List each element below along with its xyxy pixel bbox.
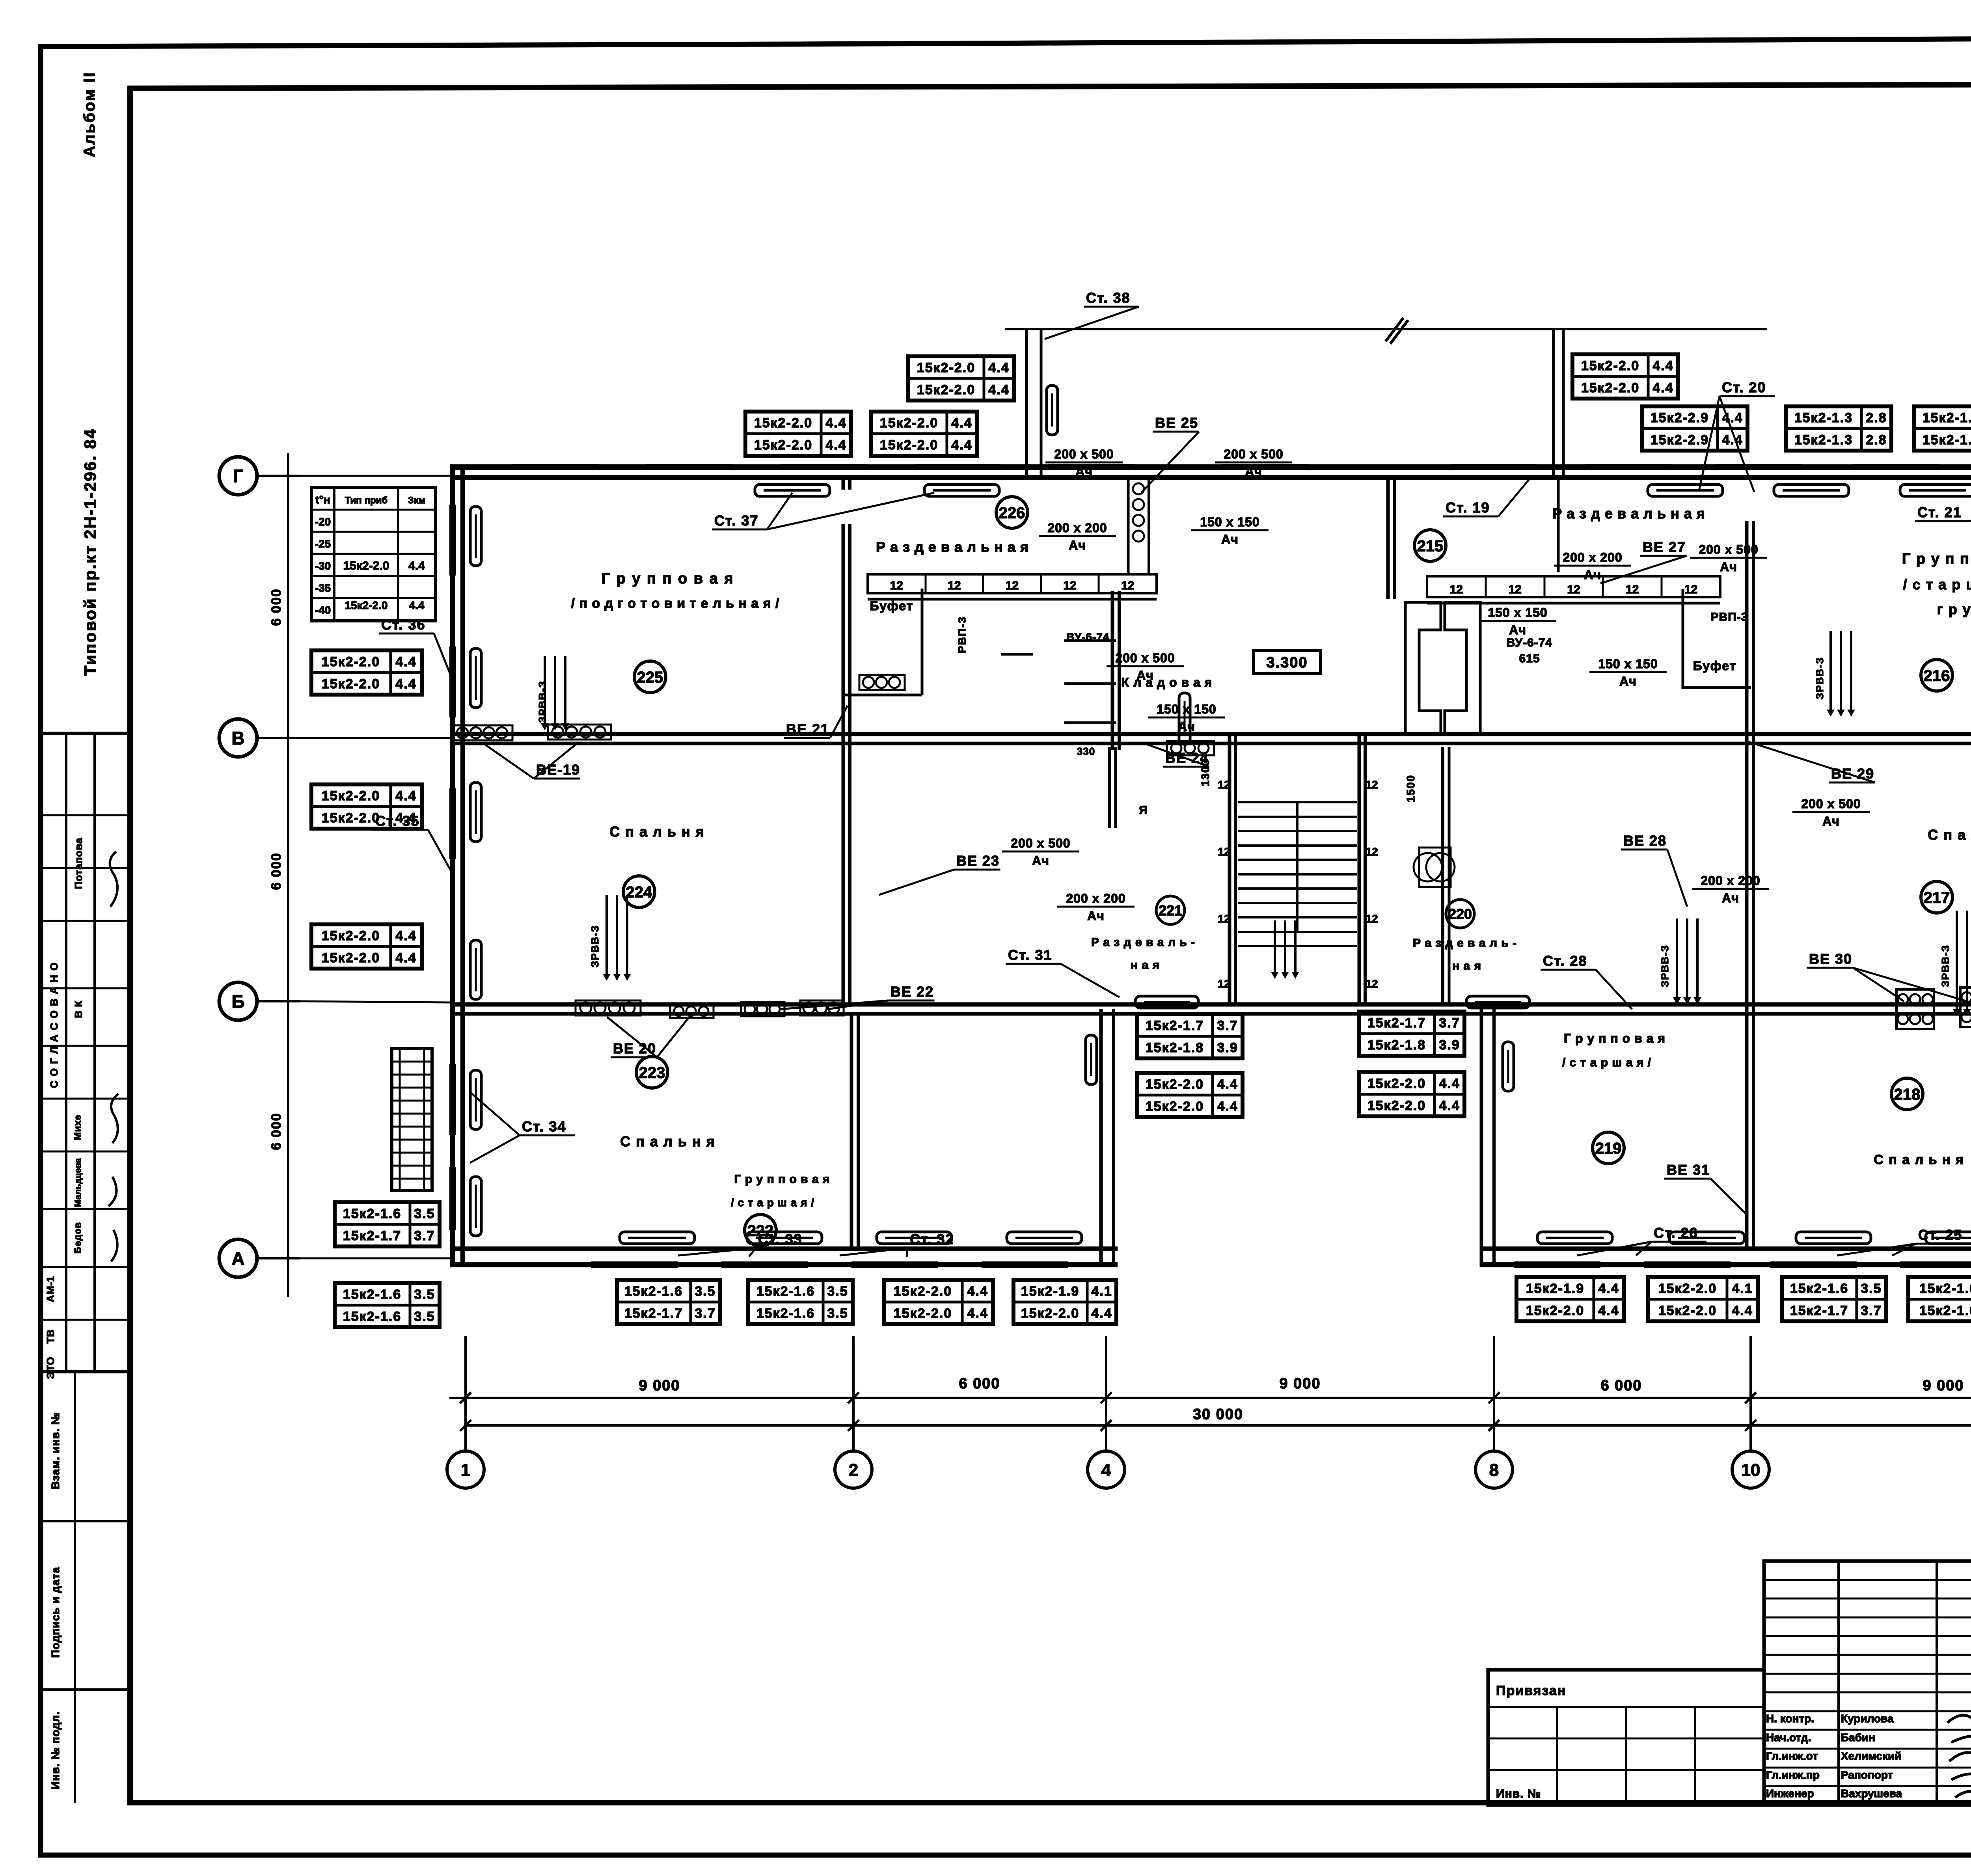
svg-text:Ст. 21: Ст. 21 (1917, 504, 1962, 520)
svg-text:15к2-2.0: 15к2-2.0 (1658, 1281, 1717, 1296)
svg-text:Ст. 20: Ст. 20 (1722, 379, 1766, 395)
svg-text:15к2-2.0: 15к2-2.0 (880, 438, 938, 453)
svg-text:В: В (231, 728, 244, 749)
svg-text:150 x 150: 150 x 150 (1157, 702, 1216, 716)
svg-text:15к2-1.6: 15к2-1.6 (1919, 1303, 1971, 1318)
svg-text:Бедов: Бедов (73, 1222, 83, 1254)
svg-text:А: А (231, 1248, 244, 1269)
svg-text:15к2-2.0: 15к2-2.0 (322, 928, 380, 943)
svg-text:3.5: 3.5 (414, 1287, 435, 1302)
svg-text:12: 12 (1684, 583, 1697, 596)
svg-text:t°н: t°н (315, 494, 330, 506)
svg-text:Курилова: Курилова (1841, 1712, 1894, 1725)
svg-text:15к2-1.7: 15к2-1.7 (343, 1228, 401, 1243)
svg-text:15к2-2.0: 15к2-2.0 (1146, 1077, 1204, 1092)
svg-text:Я: Я (1139, 804, 1148, 817)
svg-text:15к2-2.0: 15к2-2.0 (345, 599, 388, 611)
svg-text:15к2-1.9: 15к2-1.9 (1021, 1284, 1079, 1299)
svg-text:224: 224 (626, 883, 652, 901)
svg-text:15к2-1.6: 15к2-1.6 (343, 1287, 401, 1302)
left strip: lower cells (41, 1371, 130, 1373)
svg-text:15к2-2.0: 15к2-2.0 (322, 810, 380, 825)
svg-text:3.5: 3.5 (827, 1284, 848, 1299)
svg-text:Г р у п п о в а я: Г р у п п о в а я (734, 1173, 830, 1186)
svg-text:Ст. 37: Ст. 37 (714, 512, 759, 529)
svg-text:4.4: 4.4 (409, 599, 425, 611)
svg-text:ЗРВВ-З: ЗРВВ-З (537, 680, 548, 723)
svg-text:Н. контр.: Н. контр. (1766, 1712, 1814, 1725)
svg-text:15к2-1.6: 15к2-1.6 (343, 1309, 401, 1324)
svg-text:К л а д о в а я: К л а д о в а я (1121, 675, 1213, 689)
svg-text:Инв. № подл.: Инв. № подл. (49, 1711, 61, 1789)
svg-text:Инв. №: Инв. № (1496, 1787, 1541, 1800)
svg-text:15к2-2.0: 15к2-2.0 (1526, 1303, 1584, 1318)
svg-text:2.8: 2.8 (1866, 410, 1887, 425)
svg-text:Потапова: Потапова (73, 838, 84, 889)
svg-text:4.4: 4.4 (951, 415, 972, 430)
svg-text:3.9: 3.9 (1439, 1038, 1460, 1053)
svg-text:4.4: 4.4 (967, 1284, 988, 1299)
svg-text:Ач: Ач (1136, 668, 1154, 682)
svg-text:4.4: 4.4 (395, 788, 416, 803)
svg-text:15к2-1.6: 15к2-1.6 (756, 1284, 815, 1299)
svg-text:223: 223 (639, 1064, 665, 1081)
svg-text:12: 12 (1121, 579, 1134, 592)
svg-text:3.7: 3.7 (414, 1228, 435, 1243)
svg-text:12: 12 (1218, 978, 1230, 990)
svg-text:12: 12 (1218, 779, 1230, 791)
svg-text:4.4: 4.4 (395, 654, 416, 669)
value tables around plan (908, 356, 1014, 401)
svg-text:200 x 200: 200 x 200 (1047, 521, 1107, 535)
svg-text:ВЕ 30: ВЕ 30 (1809, 951, 1852, 967)
svg-text:1500: 1500 (1405, 775, 1417, 802)
svg-text:15к2-1.3: 15к2-1.3 (1923, 410, 1971, 425)
svg-text:4.4: 4.4 (1439, 1098, 1460, 1113)
svg-text:ВЕ 25: ВЕ 25 (1155, 415, 1198, 431)
cubby rows (868, 574, 1157, 593)
svg-text:15к2-1.8: 15к2-1.8 (1146, 1040, 1204, 1055)
svg-text:Ач: Ач (1087, 909, 1105, 923)
svg-text:15к2-2.9: 15к2-2.9 (1651, 410, 1709, 425)
svg-text:Привязан: Привязан (1496, 1683, 1566, 1698)
svg-text:6 000: 6 000 (959, 1375, 1000, 1392)
svg-text:15к2-2.0: 15к2-2.0 (343, 559, 389, 572)
svg-text:4.4: 4.4 (967, 1306, 988, 1321)
svg-text:12: 12 (890, 579, 903, 592)
svg-text:-20: -20 (315, 516, 331, 528)
svg-text:1: 1 (461, 1461, 470, 1480)
svg-text:Ач: Ач (1619, 674, 1637, 688)
svg-text:Подпись и дата: Подпись и дата (49, 1567, 61, 1658)
svg-text:ВЕ 21: ВЕ 21 (786, 721, 829, 737)
svg-text:3.5: 3.5 (414, 1206, 435, 1221)
svg-text:Рапопорт: Рапопорт (1841, 1769, 1893, 1781)
svg-text:200 x 200: 200 x 200 (1066, 891, 1125, 905)
svg-text:Ст. 38: Ст. 38 (1086, 290, 1131, 306)
svg-text:2.8: 2.8 (1866, 432, 1887, 447)
svg-text:15к2-1.7: 15к2-1.7 (1790, 1303, 1848, 1318)
svg-text:Ст. 32: Ст. 32 (910, 1231, 954, 1247)
svg-text:226: 226 (999, 504, 1025, 522)
svg-text:200 x 500: 200 x 500 (1224, 447, 1283, 461)
svg-text:Ст. 19: Ст. 19 (1446, 499, 1490, 516)
svg-text:15к2-2.0: 15к2-2.0 (1021, 1306, 1079, 1321)
svg-text:4.1: 4.1 (1091, 1284, 1112, 1299)
svg-text:200 x 500: 200 x 500 (1011, 836, 1070, 850)
svg-text:15к2-1.6: 15к2-1.6 (1919, 1281, 1971, 1296)
svg-text:Р а з д е в а л ь -: Р а з д е в а л ь - (1091, 936, 1195, 949)
svg-text:Ст. 33: Ст. 33 (758, 1231, 803, 1247)
svg-text:Ст. 34: Ст. 34 (522, 1118, 566, 1135)
svg-text:30 000: 30 000 (1193, 1406, 1243, 1423)
svg-text:3.5: 3.5 (827, 1306, 848, 1321)
svg-text:15к2-2.0: 15к2-2.0 (322, 654, 380, 669)
svg-text:Ач: Ач (1720, 560, 1737, 574)
svg-text:Вахрушева: Вахрушева (1841, 1787, 1902, 1800)
svg-text:Р а з д е в а л ь н а я: Р а з д е в а л ь н а я (1552, 505, 1705, 522)
svg-text:Ач: Ач (1178, 719, 1195, 734)
svg-text:ЗРВВ-З: ЗРВВ-З (589, 925, 601, 967)
svg-text:С п а л ь н я: С п а л ь н я (609, 823, 705, 840)
svg-text:ТВ: ТВ (45, 1329, 56, 1344)
svg-text:215: 215 (1417, 537, 1444, 555)
svg-text:220: 220 (1448, 906, 1472, 922)
svg-text:ВУ-6-74: ВУ-6-74 (1067, 631, 1110, 643)
svg-text:330: 330 (1077, 745, 1095, 757)
svg-text:Взам. инв. №: Взам. инв. № (49, 1412, 61, 1489)
svg-text:С п а л ь н я: С п а л ь н я (620, 1133, 715, 1149)
svg-text:4.4: 4.4 (395, 810, 416, 825)
svg-text:Буфет: Буфет (870, 599, 914, 613)
svg-text:12: 12 (948, 579, 961, 592)
svg-text:4.4: 4.4 (395, 950, 416, 965)
svg-text:Типовой пр.кт 2Н-1-296. 84: Типовой пр.кт 2Н-1-296. 84 (81, 428, 99, 676)
svg-text:12: 12 (1509, 583, 1522, 596)
svg-text:15к2-1.6: 15к2-1.6 (624, 1284, 683, 1299)
svg-text:Г: Г (233, 466, 243, 486)
svg-text:4.4: 4.4 (951, 438, 972, 453)
svg-text:ВЕ 23: ВЕ 23 (956, 853, 1000, 869)
svg-text:12: 12 (1218, 846, 1230, 858)
svg-text:4: 4 (1101, 1461, 1111, 1480)
svg-text:6 000: 6 000 (1600, 1377, 1642, 1394)
svg-text:12: 12 (1366, 846, 1378, 858)
axis letters (219, 457, 257, 495)
svg-text:150 x 150: 150 x 150 (1200, 515, 1259, 529)
svg-text:Ст. 31: Ст. 31 (1008, 947, 1053, 963)
svg-text:/ п о д г о т о в и т е л ь н: / п о д г о т о в и т е л ь н а я / (571, 596, 780, 611)
svg-text:Ст. 26: Ст. 26 (1654, 1225, 1698, 1241)
svg-text:12: 12 (1450, 583, 1463, 596)
svg-text:200 x 200: 200 x 200 (1701, 874, 1760, 888)
svg-text:4.4: 4.4 (1217, 1099, 1238, 1114)
svg-text:ВЕ 31: ВЕ 31 (1667, 1162, 1710, 1178)
svg-text:15к2-2.9: 15к2-2.9 (1651, 432, 1709, 447)
svg-text:15к2-2.0: 15к2-2.0 (1367, 1098, 1426, 1113)
svg-text:6 000: 6 000 (269, 1112, 284, 1150)
svg-text:4.4: 4.4 (1732, 1303, 1753, 1318)
svg-text:Инженер: Инженер (1766, 1787, 1814, 1800)
svg-text:В К: В К (73, 1000, 84, 1018)
svg-text:Г р у п п о в а я: Г р у п п о в а я (1902, 551, 1971, 567)
svg-text:Р а з д е в а л ь н а я: Р а з д е в а л ь н а я (876, 539, 1029, 555)
svg-text:ВЕ-19: ВЕ-19 (536, 762, 580, 778)
svg-text:Р а з д е в а л ь -: Р а з д е в а л ь - (1413, 937, 1517, 950)
svg-text:6 000: 6 000 (269, 852, 284, 890)
svg-text:4.4: 4.4 (988, 382, 1009, 397)
svg-text:4.4: 4.4 (1652, 380, 1673, 395)
svg-text:Ст. 25: Ст. 25 (1918, 1227, 1963, 1243)
svg-text:15к2-1.7: 15к2-1.7 (624, 1306, 683, 1321)
svg-text:15к2-2.0: 15к2-2.0 (917, 360, 975, 375)
svg-text:4.4: 4.4 (988, 360, 1009, 375)
svg-text:4.4: 4.4 (395, 676, 416, 691)
svg-text:-35: -35 (315, 582, 331, 594)
svg-text:н а я: н а я (1452, 959, 1481, 972)
svg-text:/ с т а р ш а я /: / с т а р ш а я / (731, 1196, 814, 1209)
svg-text:3.5: 3.5 (1861, 1281, 1882, 1296)
svg-text:3.5: 3.5 (695, 1284, 715, 1299)
svg-text:15к2-1.7: 15к2-1.7 (1367, 1015, 1426, 1030)
left exterior stair (392, 1049, 432, 1190)
svg-text:Ач: Ач (1245, 464, 1262, 479)
svg-text:200 x 500: 200 x 500 (1699, 542, 1758, 557)
svg-text:15к2-2.0: 15к2-2.0 (1367, 1076, 1426, 1091)
svg-text:12: 12 (1366, 779, 1378, 791)
svg-text:3.7: 3.7 (1861, 1303, 1882, 1318)
svg-text:3.7: 3.7 (1217, 1018, 1238, 1033)
svg-text:Хелимский: Хелимский (1841, 1750, 1902, 1762)
svg-text:Ач: Ач (1069, 538, 1086, 552)
svg-text:200 x 500: 200 x 500 (1801, 797, 1861, 811)
svg-text:4.4: 4.4 (395, 928, 416, 943)
svg-text:4.4: 4.4 (1598, 1281, 1619, 1296)
svg-text:9 000: 9 000 (1923, 1377, 1964, 1394)
svg-text:15к2-1.6: 15к2-1.6 (343, 1206, 401, 1221)
svg-text:3.5: 3.5 (414, 1309, 435, 1324)
svg-text:С п а л ь н я: С п а л ь н я (1928, 827, 1971, 843)
svg-text:15к2-2.0: 15к2-2.0 (754, 438, 812, 453)
svg-text:12: 12 (1366, 913, 1378, 925)
svg-text:4.4: 4.4 (1217, 1077, 1238, 1092)
bottom dimension lines (449, 1397, 1971, 1399)
svg-text:С п а л ь н я: С п а л ь н я (1874, 1152, 1964, 1167)
svg-text:Буфет: Буфет (1693, 659, 1737, 673)
svg-text:15к2-1.6: 15к2-1.6 (1790, 1281, 1848, 1296)
svg-text:15к2-1.6: 15к2-1.6 (756, 1306, 815, 1321)
svg-text:Мальдцева: Мальдцева (73, 1158, 83, 1207)
svg-text:Ач: Ач (1032, 853, 1049, 868)
svg-text:9 000: 9 000 (639, 1377, 680, 1394)
svg-text:Бабин: Бабин (1841, 1731, 1875, 1744)
svg-text:1300: 1300 (1199, 759, 1211, 786)
svg-text:Ач: Ач (1075, 464, 1093, 479)
svg-text:15к2-2.0: 15к2-2.0 (1581, 358, 1639, 373)
svg-text:12: 12 (1567, 583, 1580, 596)
down arrow groups (541, 656, 569, 730)
svg-text:9 000: 9 000 (1279, 1375, 1321, 1392)
svg-text:Тип приб: Тип приб (345, 495, 387, 506)
svg-text:15к2-2.0: 15к2-2.0 (894, 1306, 952, 1321)
svg-text:С О Г Л А С О В А Н О: С О Г Л А С О В А Н О (48, 962, 60, 1088)
radiators left/right walls (470, 507, 481, 566)
svg-text:216: 216 (1924, 667, 1950, 684)
vent stacks small (1127, 475, 1130, 574)
svg-text:Ст. 28: Ст. 28 (1543, 953, 1587, 969)
svg-text:15к2-2.0: 15к2-2.0 (880, 415, 938, 430)
svg-text:200 x 500: 200 x 500 (1054, 447, 1114, 461)
svg-text:3.7: 3.7 (695, 1306, 715, 1321)
svg-text:15к2-1.9: 15к2-1.9 (1526, 1281, 1584, 1296)
svg-text:218: 218 (1894, 1086, 1921, 1103)
radiators bottom (620, 1232, 695, 1244)
svg-text:15к2-2.0: 15к2-2.0 (1658, 1303, 1717, 1318)
svg-text:12: 12 (1006, 579, 1019, 592)
svg-text:15к2-1.3: 15к2-1.3 (1923, 432, 1971, 447)
svg-text:4.4: 4.4 (1598, 1303, 1619, 1318)
central staircase (1228, 735, 1231, 1004)
vents on B wall (453, 725, 512, 740)
svg-text:221: 221 (1159, 902, 1182, 918)
svg-text:200 x 500: 200 x 500 (1115, 651, 1175, 665)
svg-text:-40: -40 (315, 604, 331, 616)
svg-text:15к2-2.0: 15к2-2.0 (322, 950, 380, 965)
svg-text:ВЕ 20: ВЕ 20 (613, 1040, 656, 1056)
svg-text:Зкм: Зкм (408, 495, 426, 506)
canopy (1005, 328, 1767, 330)
svg-text:4.4: 4.4 (1722, 432, 1743, 447)
exterior walls (450, 464, 1971, 470)
interior walls (450, 732, 1971, 736)
svg-text:Г р у п п о в а я: Г р у п п о в а я (1564, 1031, 1665, 1045)
svg-text:15к2-2.0: 15к2-2.0 (894, 1284, 952, 1299)
svg-text:4.1: 4.1 (1732, 1281, 1753, 1296)
svg-text:3.7: 3.7 (1439, 1015, 1460, 1030)
svg-text:8: 8 (1489, 1461, 1499, 1480)
svg-text:ВЕ 22: ВЕ 22 (890, 984, 934, 1000)
svg-text:12: 12 (1626, 583, 1639, 596)
svg-text:Альбом II: Альбом II (81, 71, 98, 157)
svg-text:615: 615 (1519, 652, 1540, 665)
svg-text:12: 12 (1366, 978, 1378, 990)
svg-text:/ с т а р ш а я: / с т а р ш а я (1903, 576, 1971, 592)
title block (1764, 1561, 1971, 1805)
axis lines to plan (300, 475, 450, 477)
svg-text:ВЕ 28: ВЕ 28 (1623, 833, 1667, 849)
svg-text:ЭТО: ЭТО (45, 1357, 56, 1379)
svg-text:4.4: 4.4 (1722, 410, 1743, 425)
svg-text:РВП-3: РВП-3 (956, 616, 968, 653)
svg-text:4.4: 4.4 (408, 559, 425, 572)
svg-text:12: 12 (1063, 579, 1076, 592)
svg-text:-30: -30 (315, 560, 331, 572)
svg-text:15к2-2.0: 15к2-2.0 (754, 415, 812, 430)
svg-text:-25: -25 (315, 538, 331, 550)
svg-text:15к2-2.0: 15к2-2.0 (322, 788, 380, 803)
svg-text:15к2-2.0: 15к2-2.0 (1146, 1099, 1204, 1114)
svg-text:Г р у п п о в а я: Г р у п п о в а я (601, 570, 734, 587)
svg-text:г р у п п А /: г р у п п А / (1937, 601, 1971, 617)
svg-text:Гл.инж.пр: Гл.инж.пр (1766, 1769, 1820, 1781)
svg-text:Ач: Ач (1584, 568, 1601, 582)
svg-text:4.4: 4.4 (1439, 1076, 1460, 1091)
svg-text:15к2-1.3: 15к2-1.3 (1794, 432, 1853, 447)
svg-text:219: 219 (1595, 1140, 1622, 1157)
svg-text:10: 10 (1741, 1461, 1760, 1480)
svg-text:6 000: 6 000 (269, 588, 284, 626)
svg-text:ВЕ 27: ВЕ 27 (1643, 539, 1686, 555)
svg-text:2: 2 (849, 1461, 858, 1480)
svg-text:4.4: 4.4 (825, 438, 846, 453)
svg-text:200 x 200: 200 x 200 (1563, 550, 1622, 564)
svg-text:225: 225 (637, 669, 663, 686)
svg-text:АМ-1: АМ-1 (45, 1276, 56, 1302)
svg-text:150 x 150: 150 x 150 (1488, 605, 1547, 620)
svg-text:15к2-2.0: 15к2-2.0 (1581, 380, 1639, 395)
svg-text:15к2-1.3: 15к2-1.3 (1794, 410, 1853, 425)
svg-text:ВУ-6-74: ВУ-6-74 (1507, 636, 1552, 649)
svg-text:4.4: 4.4 (1652, 358, 1673, 373)
svg-text:Гл.инж.от: Гл.инж.от (1766, 1750, 1818, 1762)
svg-text:Ст. 36: Ст. 36 (381, 617, 426, 633)
svg-text:15к2-1.8: 15к2-1.8 (1367, 1038, 1426, 1053)
svg-text:Нач.отд.: Нач.отд. (1766, 1731, 1811, 1744)
svg-text:ЗРВВ-З: ЗРВВ-З (1659, 945, 1671, 987)
svg-text:3.300: 3.300 (1266, 654, 1308, 671)
svg-text:3.9: 3.9 (1217, 1040, 1238, 1055)
radiators top (755, 484, 830, 496)
svg-text:Ач: Ач (1822, 814, 1840, 828)
svg-text:12: 12 (1218, 913, 1230, 925)
svg-text:15к2-2.0: 15к2-2.0 (917, 382, 975, 397)
svg-text:Михе: Михе (73, 1115, 83, 1140)
left strip: approval table (41, 733, 130, 1372)
svg-text:ЗРВВ-З: ЗРВВ-З (1814, 657, 1826, 699)
svg-text:РВП-3: РВП-3 (1711, 611, 1748, 624)
svg-text:150 x 150: 150 x 150 (1598, 657, 1658, 671)
svg-text:ЗРВВ-З: ЗРВВ-З (1939, 945, 1951, 987)
svg-text:217: 217 (1924, 889, 1950, 906)
vents on Б wall (576, 1000, 641, 1015)
svg-text:15к2-2.0: 15к2-2.0 (322, 676, 380, 691)
svg-text:Ач: Ач (1722, 891, 1739, 905)
svg-text:Б: Б (231, 991, 244, 1012)
svg-text:4.4: 4.4 (1091, 1306, 1112, 1321)
svg-text:/ с т а р ш а я /: / с т а р ш а я / (1562, 1056, 1651, 1069)
svg-text:4.4: 4.4 (825, 415, 846, 430)
svg-text:15к2-1.7: 15к2-1.7 (1146, 1018, 1204, 1033)
svg-text:н а я: н а я (1131, 959, 1160, 972)
temperature table (311, 488, 436, 621)
svg-text:Ач: Ач (1509, 623, 1526, 637)
svg-text:Ач: Ач (1221, 532, 1239, 546)
